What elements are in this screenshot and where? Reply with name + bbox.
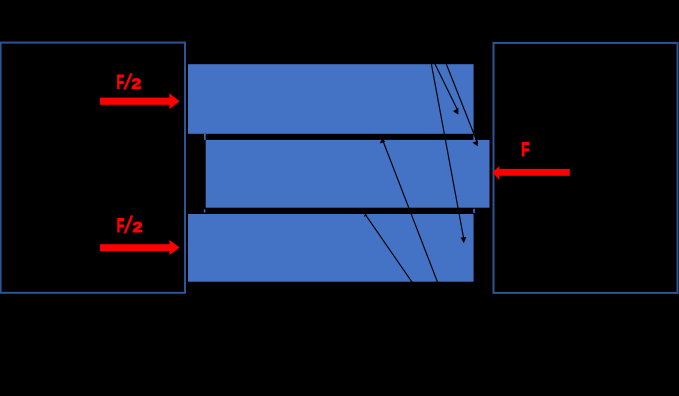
- svg-text:2: 2: [132, 75, 142, 92]
- leader arrowhead E: [364, 214, 368, 217]
- leader line E: [366, 216, 414, 286]
- right outlined box: [494, 43, 678, 293]
- force arrow F/2 top: [100, 98, 170, 105]
- label F/2 top: [117, 72, 142, 93]
- svg-text:2: 2: [133, 219, 143, 236]
- svg-text:F: F: [117, 216, 125, 237]
- leader line C: [446, 62, 478, 143]
- svg-text:F: F: [521, 140, 529, 161]
- leader line D: [383, 141, 439, 287]
- top adherend plate: [188, 64, 474, 134]
- adhesive layer notch bottom-left: [204, 209, 206, 212]
- leader arrowhead B: [453, 108, 458, 115]
- leader line A: [431, 62, 464, 238]
- adhesive layer notch top-left: [204, 134, 206, 140]
- bottom adherend plate: [188, 214, 474, 282]
- leader arrowhead C: [473, 140, 479, 146]
- adhesive layer notch bottom-right: [473, 209, 475, 213]
- left outlined box: [1, 43, 185, 293]
- force arrow F right: [499, 169, 570, 176]
- leader arrowhead A: [461, 237, 467, 243]
- svg-text:F: F: [117, 72, 125, 93]
- adhesive layer notch top-right: [473, 134, 475, 140]
- label F/2 bottom: [117, 215, 143, 237]
- middle adherend plate: [206, 140, 490, 208]
- leader arrowhead D: [380, 139, 386, 144]
- force arrow F/2 bottom: [100, 244, 170, 251]
- leader line B: [434, 62, 458, 111]
